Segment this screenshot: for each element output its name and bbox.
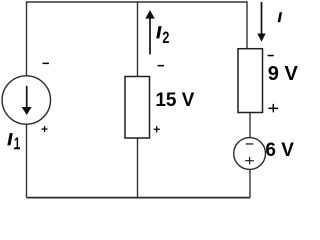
wire right vertical upper xyxy=(246,1,248,48)
label plus of I1 xyxy=(42,128,48,129)
wire right box-to-source xyxy=(249,113,251,138)
wire right source-to-bottom xyxy=(249,170,251,198)
element box 15V xyxy=(125,77,150,139)
wire left vertical upper xyxy=(26,1,28,76)
current source I1 circle xyxy=(2,76,50,124)
svg-text:I: I xyxy=(8,131,13,149)
svg-text:15 V: 15 V xyxy=(155,89,194,111)
wire top horizontal xyxy=(27,1,248,3)
label minus of 9V xyxy=(268,55,274,57)
arrow I2 xyxy=(149,18,151,54)
arrow I down xyxy=(261,2,263,34)
voltage source 6V circle xyxy=(234,138,266,170)
label plus of 9V xyxy=(268,108,278,110)
wire bottom horizontal xyxy=(27,197,251,199)
label minus of I1 xyxy=(43,63,49,65)
wire left vertical lower xyxy=(26,124,28,198)
svg-text:I: I xyxy=(156,24,161,42)
svg-text:2: 2 xyxy=(162,29,169,47)
minus inside 6V xyxy=(246,143,254,144)
svg-text:I: I xyxy=(278,10,282,25)
svg-text:1: 1 xyxy=(14,135,20,153)
wire middle vertical lower xyxy=(137,138,139,198)
current source I1 arrow xyxy=(26,86,28,108)
label plus of 15V xyxy=(154,129,160,130)
svg-text:6 V: 6 V xyxy=(265,140,294,161)
label minus of 15V xyxy=(158,65,165,67)
plus inside 6V xyxy=(245,160,254,161)
wire middle vertical upper xyxy=(137,1,139,76)
element box 9V xyxy=(238,49,263,113)
svg-text:9 V: 9 V xyxy=(268,63,299,85)
